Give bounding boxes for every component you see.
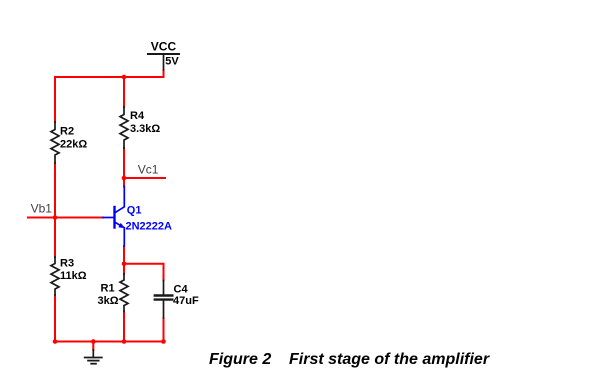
svg-text:R3: R3 — [60, 257, 74, 269]
svg-text:R2: R2 — [60, 126, 74, 138]
svg-text:R1: R1 — [101, 283, 115, 295]
svg-text:Figure 2 First stage of the: Figure 2 First stage of the amplifier — [209, 351, 490, 368]
svg-text:47uF: 47uF — [173, 295, 199, 307]
svg-text:R4: R4 — [130, 110, 145, 122]
svg-text:3.3kΩ: 3.3kΩ — [130, 123, 160, 135]
svg-text:5V: 5V — [165, 55, 179, 67]
svg-text:Vc1: Vc1 — [138, 163, 159, 177]
svg-text:Vb1: Vb1 — [31, 202, 53, 216]
svg-text:VCC: VCC — [151, 40, 177, 54]
svg-text:22kΩ: 22kΩ — [60, 138, 87, 150]
svg-text:Q1: Q1 — [127, 205, 142, 217]
svg-text:3kΩ: 3kΩ — [98, 295, 119, 307]
svg-text:2N2222A: 2N2222A — [126, 221, 173, 233]
svg-text:C4: C4 — [174, 284, 189, 296]
svg-text:11kΩ: 11kΩ — [60, 270, 87, 282]
